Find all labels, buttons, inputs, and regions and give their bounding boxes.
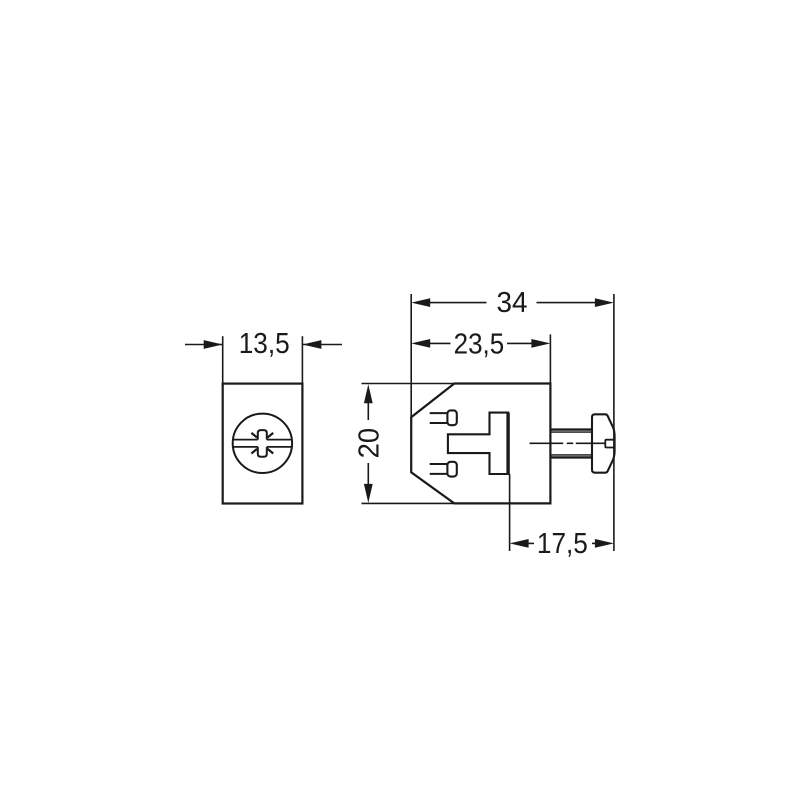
- dim 20 bottom arrow: [364, 484, 373, 503]
- screw shaft top outer line: [552, 428, 592, 430]
- pozidriv tick lower-left: [251, 449, 257, 454]
- svg-text:20: 20: [354, 428, 386, 459]
- T-shape thick right face: [506, 413, 509, 474]
- pozidriv vertical bar upper half: [258, 430, 267, 440]
- lower contact pin cap: [447, 462, 456, 477]
- center line dash-dot: [530, 442, 564, 444]
- pozidriv vertical bar lower half: [258, 447, 267, 457]
- screw shaft top inner line: [552, 431, 592, 433]
- slot upper line left segment: [233, 439, 258, 441]
- dim 13,5 right arrow: [302, 344, 342, 346]
- svg-text:34: 34: [497, 287, 528, 319]
- screw head profile: [592, 414, 615, 472]
- screw head circle (front view): [233, 414, 292, 473]
- dim 34 right extension line: [613, 294, 615, 551]
- dim 23,5 left arrow: [411, 339, 430, 348]
- svg-text:13,5: 13,5: [239, 328, 290, 360]
- dim 13,5 left arrow: [185, 344, 223, 346]
- left view front plate outline: [223, 384, 303, 504]
- dim 34 left arrow: [411, 298, 430, 307]
- pozidriv tick upper-right: [268, 433, 274, 438]
- slot lower line right segment: [267, 446, 292, 448]
- dim 34 right arrow: [595, 298, 614, 307]
- dim 17,5 right arrow: [595, 539, 614, 548]
- dim 17,5 left extension line: [509, 474, 511, 551]
- svg-text:17,5: 17,5: [537, 528, 588, 560]
- dim 13,5 left extension line: [222, 336, 224, 383]
- dim 20 top extension line: [362, 383, 455, 385]
- slot upper line right segment: [267, 439, 292, 441]
- pozidriv tick upper-left: [251, 433, 257, 438]
- svg-text:23,5: 23,5: [454, 328, 505, 360]
- pozidriv tick lower-right: [268, 449, 274, 454]
- dim 34 left extension line: [410, 294, 412, 418]
- dim 20 top arrow: [364, 384, 373, 403]
- upper contact pin lines: [430, 412, 449, 414]
- dim 17,5 left arrow: [510, 539, 529, 548]
- dim 20 bottom extension line: [362, 502, 455, 504]
- body outline (side view): [411, 384, 550, 504]
- screw shaft bottom inner line: [552, 454, 592, 456]
- dim 23,5 right extension line: [549, 334, 551, 383]
- T-shaped clamp piece: [448, 413, 508, 474]
- upper contact pin cap: [447, 410, 456, 425]
- dim 23,5 right arrow: [531, 339, 550, 348]
- dim 13,5 right extension line: [301, 336, 303, 383]
- slot lower line left segment: [233, 446, 258, 448]
- screw shaft bottom outer line: [552, 456, 592, 458]
- screw head slot notch: [605, 440, 614, 448]
- lower contact pin lines: [430, 463, 449, 465]
